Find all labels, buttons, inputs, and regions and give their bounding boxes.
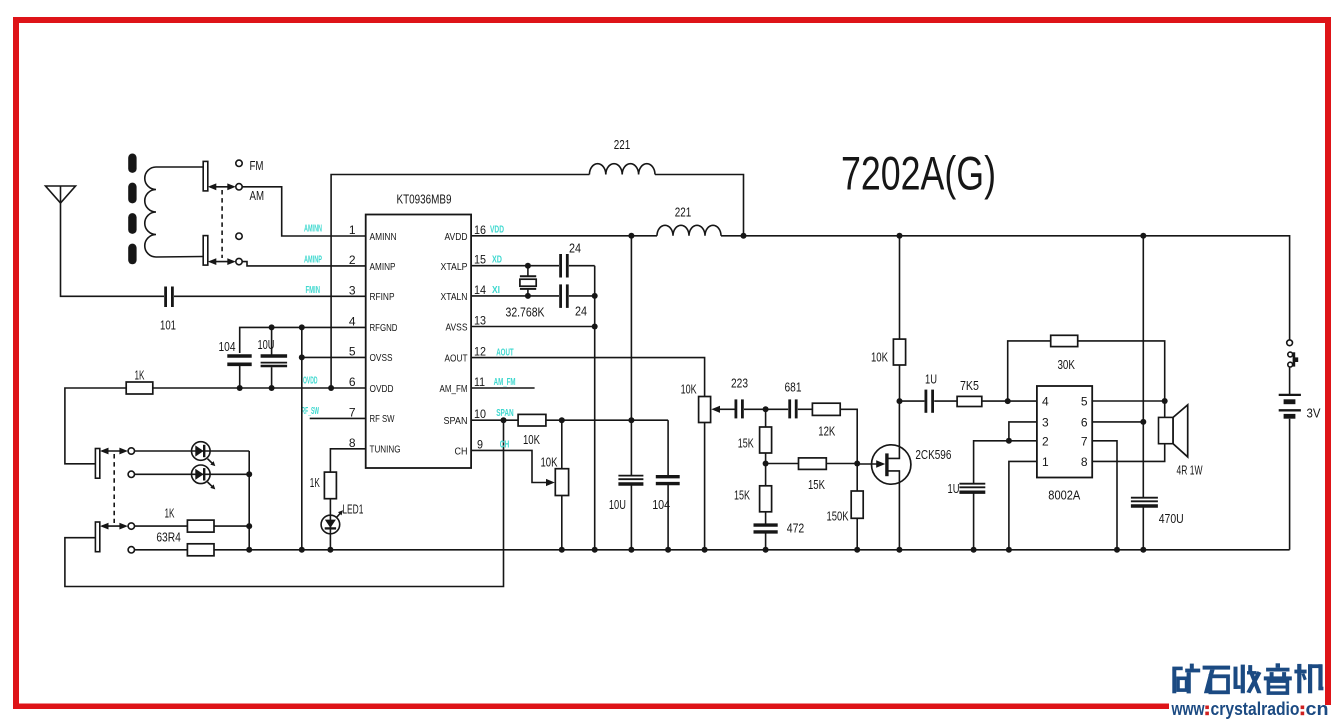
wire TUNING pin8 down xyxy=(330,449,365,472)
inductor 221 (lower, VDD rail) xyxy=(657,205,721,236)
wire 1K to junction xyxy=(214,525,249,527)
wire 15K junction row xyxy=(765,453,767,486)
contact row2 xyxy=(128,471,134,477)
wire AM lower contact to AMINP pin2 xyxy=(242,262,366,266)
junction row column/ground rail xyxy=(246,547,252,553)
wire RFGND pin4 to caps xyxy=(240,327,366,353)
junction 470U/ground rail xyxy=(1140,547,1146,553)
resistor 15K (lower vertical) xyxy=(734,486,772,512)
wire coil top to FM/AM switch plate xyxy=(156,166,203,168)
watermark logo 机 xyxy=(1294,664,1323,693)
svg-text:1: 1 xyxy=(1042,455,1049,469)
svg-text:5: 5 xyxy=(1081,395,1088,409)
potentiometer 10K (volume) xyxy=(681,382,711,423)
wire pin6 to VDD vertical xyxy=(1092,421,1143,423)
wire 15K to 472 xyxy=(765,512,767,524)
inductor 221 (upper) xyxy=(589,137,655,175)
svg-text:221: 221 xyxy=(614,137,631,152)
junction 223/15K xyxy=(763,406,769,412)
junction pin4/30K xyxy=(1005,398,1011,404)
capacitor 24 (upper) xyxy=(561,240,581,277)
AVSS ground vertical wire xyxy=(594,266,596,550)
svg-text:OVDD: OVDD xyxy=(303,376,318,387)
junction SPAN/VDD vertical xyxy=(628,417,634,423)
LED D2 xyxy=(192,465,216,489)
junction ground/104 xyxy=(665,547,671,553)
svg-text:6: 6 xyxy=(349,375,356,389)
svg-text:RF_SW: RF_SW xyxy=(302,406,320,417)
switch S1b wiper double arrow xyxy=(208,258,236,265)
svg-text:32.768K: 32.768K xyxy=(506,304,545,319)
resistor 12K xyxy=(812,403,840,438)
wire row3 to 1K xyxy=(135,525,188,527)
wire pin8 to speaker bottom xyxy=(1092,444,1165,462)
switch S2 plate xyxy=(95,449,99,479)
svg-text:221: 221 xyxy=(675,205,692,220)
wire AM contact to AMINN pin1 xyxy=(242,187,366,236)
wire AOUT pin12 to volume pot xyxy=(471,358,704,397)
capacitor 104 (left) xyxy=(219,339,252,365)
transistor Q1 2CK596 xyxy=(857,401,951,550)
junction ground/volume pot xyxy=(702,547,708,553)
svg-text:11: 11 xyxy=(474,375,485,389)
wire row4 to 63R4 xyxy=(135,549,188,551)
capacitor 104 (VDD bypass) xyxy=(652,420,680,550)
junction VDD/SPAN pull-up xyxy=(628,233,634,239)
junction 15K node xyxy=(763,461,769,467)
wire 681 to 12K xyxy=(798,408,813,410)
svg-text:cn: cn xyxy=(1306,699,1329,719)
wire OVSS pin5 to ground vertical xyxy=(302,356,366,358)
wire CH pot bottom to ground xyxy=(561,496,563,550)
watermark logo 石 xyxy=(1203,666,1231,694)
dashed switch link S2/S3 xyxy=(113,454,115,523)
resistor 1K (row3) xyxy=(165,505,215,532)
svg-text:1K: 1K xyxy=(135,368,145,383)
svg-text:8: 8 xyxy=(1081,455,1088,469)
junction drain node xyxy=(897,398,903,404)
svg-text:223: 223 xyxy=(731,376,748,391)
svg-text:8: 8 xyxy=(349,436,356,450)
svg-text:30K: 30K xyxy=(1057,357,1075,372)
junction pin2/pin3 xyxy=(1006,438,1012,444)
svg-text:4R 1W: 4R 1W xyxy=(1177,463,1203,478)
svg-text:12: 12 xyxy=(474,344,486,358)
ground vertical wire (RFGND/OVSS) xyxy=(301,327,303,549)
junction LED1/ground rail xyxy=(327,547,333,553)
speaker 4R 1W xyxy=(1159,405,1203,478)
capacitor 101 xyxy=(160,287,176,333)
svg-text:FM: FM xyxy=(250,158,264,173)
resistor 150K xyxy=(827,491,864,524)
svg-text:AM: AM xyxy=(250,188,265,203)
wire pin5 to speaker top xyxy=(1092,400,1165,402)
svg-text:CH: CH xyxy=(500,440,510,451)
VDD vertical wire to 470U xyxy=(1142,236,1144,497)
switch S4 (power) xyxy=(1287,340,1299,367)
svg-text:10K: 10K xyxy=(523,432,540,447)
CH pot wiper arrowhead xyxy=(546,479,555,486)
junction AVSS vertical xyxy=(592,324,598,330)
junction XTALP/crystal xyxy=(525,263,531,269)
ground rail xyxy=(214,549,1290,551)
svg-text:1: 1 xyxy=(349,223,356,237)
junction SPAN/CH pot top xyxy=(559,417,565,423)
junction ground/AVSS xyxy=(592,547,598,553)
dashed switch link S1 xyxy=(221,190,223,258)
svg-text:AOUT: AOUT xyxy=(496,347,514,358)
resistor 7K5 xyxy=(957,378,982,407)
wire 150K to ground xyxy=(856,518,858,550)
wire pin3 to pin2 link xyxy=(1009,422,1037,441)
svg-text:2CK596: 2CK596 xyxy=(915,447,951,462)
junction 472/ground rail xyxy=(763,547,769,553)
svg-text:OVDD: OVDD xyxy=(370,384,394,395)
svg-text:10K: 10K xyxy=(681,382,697,397)
capacitor 10U (VDD bypass, polarized) xyxy=(609,476,644,550)
wire antenna to C101 xyxy=(61,203,165,296)
ferrite rod bars xyxy=(128,154,136,265)
U1 pin numbers left 1-8 xyxy=(349,223,356,450)
svg-text:SPAN: SPAN xyxy=(496,408,514,419)
svg-text:7202A(G): 7202A(G) xyxy=(841,147,996,200)
contact row3 xyxy=(128,523,134,529)
svg-text:XD: XD xyxy=(492,254,502,265)
wire SPAN net to VDD pull-up column xyxy=(546,419,668,421)
junction VDD/221 xyxy=(741,233,747,239)
switch S1b plate xyxy=(203,236,208,266)
wire XTALN pin14 xyxy=(471,295,559,297)
contact FM xyxy=(236,160,242,166)
wire VDD rail right section xyxy=(721,236,1290,340)
contact AM xyxy=(236,184,242,190)
watermark logo 音 xyxy=(1264,663,1292,693)
svg-text:681: 681 xyxy=(785,380,802,395)
svg-text:1U: 1U xyxy=(925,371,937,386)
resistor 63R4 xyxy=(156,530,214,556)
switch S1a plate xyxy=(203,161,208,191)
junction ground/CH pot xyxy=(559,547,565,553)
wire CH pin9 to pot wiper xyxy=(471,450,546,482)
svg-text:crystalradio: crystalradio xyxy=(1211,699,1300,719)
svg-text:CH: CH xyxy=(455,446,468,457)
wire AVSS pin13 xyxy=(471,326,595,328)
junction RFGND/10U top xyxy=(269,324,275,330)
svg-text:15K: 15K xyxy=(738,436,754,451)
contact row4 xyxy=(128,547,134,553)
svg-text:15K: 15K xyxy=(734,487,750,502)
resistor 10K (drain load) xyxy=(871,236,906,401)
wire 7K5 to 8002A pin4 xyxy=(982,400,1037,402)
wire row1 corner down xyxy=(248,451,250,550)
svg-text:XTALN: XTALN xyxy=(441,292,468,303)
svg-text:12K: 12K xyxy=(818,423,835,438)
svg-text:1U: 1U xyxy=(948,481,960,496)
svg-text:63R4: 63R4 xyxy=(156,530,181,545)
U1 pin names right xyxy=(440,232,468,458)
svg-text:9: 9 xyxy=(477,437,483,451)
wire C101 to RFINP pin3 xyxy=(174,295,366,297)
wire pin7 to ground xyxy=(1092,441,1117,550)
svg-text:RFGND: RFGND xyxy=(370,323,398,334)
svg-text:24: 24 xyxy=(575,304,587,319)
wire cap24 lower to AVSS vertical xyxy=(569,295,595,297)
svg-text:KT0936MB9: KT0936MB9 xyxy=(397,191,452,206)
svg-text:10U: 10U xyxy=(609,497,626,512)
resistor 30K (feedback) xyxy=(1008,335,1165,401)
svg-text:7: 7 xyxy=(1081,434,1088,448)
contact row1 xyxy=(128,448,134,454)
junction gate node xyxy=(854,461,860,467)
resistor 15K (horizontal) xyxy=(766,458,858,492)
battery 3V xyxy=(1279,395,1321,420)
junction 1U/ground rail xyxy=(971,547,977,553)
junction pin6/VDD vertical xyxy=(1140,419,1146,425)
svg-text:4: 4 xyxy=(349,315,356,329)
wire 12K to gate column xyxy=(840,409,857,491)
junction cap24/AVSS vertical xyxy=(592,293,598,299)
U1 pin numbers right 16-9 xyxy=(474,223,486,452)
svg-text:RFINP: RFINP xyxy=(370,292,395,303)
svg-text:16: 16 xyxy=(474,223,486,237)
svg-text:14: 14 xyxy=(474,283,486,297)
junction OVDD/221 feed xyxy=(328,385,334,391)
capacitor 24 (lower) xyxy=(561,284,587,318)
junction pin7/ground rail xyxy=(1114,547,1120,553)
LED1 xyxy=(321,502,363,534)
wire 1K to LED1 xyxy=(329,499,331,550)
wire S3 common to SPAN bottom link xyxy=(65,420,504,586)
capacitor 470U (polarized) xyxy=(1131,498,1184,550)
svg-text:10U: 10U xyxy=(258,337,275,352)
svg-text:104: 104 xyxy=(219,339,236,354)
svg-text:2: 2 xyxy=(1042,434,1049,448)
contact AM lower xyxy=(236,258,242,264)
svg-text:AM_FM: AM_FM xyxy=(494,377,516,388)
svg-text:470U: 470U xyxy=(1159,511,1184,526)
wire 223 to 681 node xyxy=(744,408,788,410)
svg-text:AMINP: AMINP xyxy=(370,262,396,273)
resistor 15K (upper vertical) xyxy=(738,409,772,453)
contact FM lower (n.c.) xyxy=(236,233,242,239)
junction ground/RFGND vertical xyxy=(299,547,305,553)
junction pin5/30K/speaker xyxy=(1162,398,1168,404)
svg-text:15K: 15K xyxy=(808,477,825,492)
junction OVDD/10U xyxy=(269,385,275,391)
wire volume pot bottom to ground xyxy=(704,423,706,550)
svg-text:AOUT: AOUT xyxy=(445,354,468,365)
capacitor 10U (left, polarized) xyxy=(258,327,288,388)
junction OVDD/104 xyxy=(237,385,243,391)
wire CH pot top to SPAN xyxy=(561,420,563,469)
svg-text:TUNING: TUNING xyxy=(370,445,401,456)
svg-text:1K: 1K xyxy=(310,475,320,490)
U1 pin names left xyxy=(370,232,401,456)
resistor 1K (TUNING/LED) xyxy=(310,472,337,499)
svg-text:104: 104 xyxy=(652,497,670,512)
wire OVDD pin6 row xyxy=(153,387,366,389)
IC U1 KT0936MB9 xyxy=(366,191,471,468)
svg-text:24: 24 xyxy=(569,240,581,255)
svg-text:6: 6 xyxy=(1081,415,1088,429)
svg-text:OVSS: OVSS xyxy=(370,353,393,364)
capacitor 1U (coupling) xyxy=(925,371,937,413)
junction SPAN/band-select link xyxy=(501,417,507,423)
wire VDD rail AVDD pin16 xyxy=(471,235,657,237)
wire 1U to 7K5 xyxy=(934,400,957,402)
svg-text:15: 15 xyxy=(474,253,486,267)
svg-text:SPAN: SPAN xyxy=(444,416,468,427)
junction source/ground rail xyxy=(896,547,902,553)
svg-text:3: 3 xyxy=(1042,415,1049,429)
svg-text:3V: 3V xyxy=(1307,405,1321,420)
svg-text:101: 101 xyxy=(160,318,176,333)
wire switch to battery xyxy=(1289,367,1291,394)
junction OVSS/ground xyxy=(299,354,305,360)
wire row1 to LED D1 xyxy=(135,450,250,452)
watermark url www.crystalradio.cn xyxy=(1171,699,1329,719)
resistor 10K (SPAN) xyxy=(518,414,546,446)
wire XTALP pin15 xyxy=(471,265,559,267)
resistor 1K (OVDD feed) xyxy=(126,368,153,395)
junction VDD/10K drain xyxy=(897,233,903,239)
wire speaker top feed xyxy=(1164,401,1166,417)
svg-text:AMINP: AMINP xyxy=(304,255,322,266)
wire 221 upper left lead to OVDD xyxy=(331,175,589,389)
junction row3 xyxy=(246,523,252,529)
svg-text:VDD: VDD xyxy=(490,224,504,235)
svg-text:3: 3 xyxy=(349,284,356,298)
svg-text:XI: XI xyxy=(492,285,500,296)
svg-text:7K5: 7K5 xyxy=(960,378,979,393)
coil L1 winding xyxy=(145,167,156,257)
RF_SW stub pin7 xyxy=(310,417,366,419)
U2 pin numbers xyxy=(1042,395,1088,469)
svg-text:7: 7 xyxy=(349,406,356,420)
crystal 32.768K xyxy=(506,266,545,320)
wire 472 to ground xyxy=(765,533,767,550)
svg-text:150K: 150K xyxy=(827,509,849,524)
svg-text:13: 13 xyxy=(474,314,486,328)
svg-text:LED1: LED1 xyxy=(342,502,363,517)
LED D1 xyxy=(192,442,216,466)
wire 104 bottom to OVDD row xyxy=(239,363,241,388)
svg-text:www: www xyxy=(1171,699,1206,719)
svg-text:AVDD: AVDD xyxy=(445,232,468,243)
AM_FM stub pin11 xyxy=(471,387,534,389)
watermark logo 收 xyxy=(1234,665,1262,694)
svg-text:10K: 10K xyxy=(871,350,888,365)
potentiometer 10K (CH) xyxy=(541,454,569,495)
junction ground/10U xyxy=(628,547,634,553)
svg-text:AVSS: AVSS xyxy=(446,323,468,334)
svg-text:AMINN: AMINN xyxy=(304,224,322,235)
volume pot wiper arrow from C223 xyxy=(711,406,734,413)
svg-text:AM_FM: AM_FM xyxy=(440,384,468,395)
wire row2 to LED D2 xyxy=(135,473,250,475)
junction VDD/8002A supply xyxy=(1140,233,1146,239)
wire battery negative to ground rail xyxy=(1289,419,1291,550)
svg-text:FMIN: FMIN xyxy=(306,285,321,296)
junction pin1/ground rail xyxy=(1006,547,1012,553)
capacitor 681 xyxy=(785,380,802,419)
wire 221 upper right lead down to VDD rail xyxy=(655,175,744,236)
svg-text:XTALP: XTALP xyxy=(441,262,468,273)
svg-text:AMINN: AMINN xyxy=(370,232,397,243)
watermark logo 矿 xyxy=(1172,664,1200,694)
capacitor 472 xyxy=(754,521,805,536)
svg-text:4: 4 xyxy=(1042,395,1049,409)
switch S1a wiper double arrow xyxy=(208,183,236,190)
capacitor 223 xyxy=(731,376,748,419)
svg-text:472: 472 xyxy=(787,521,805,536)
switch S3 wiper double arrow xyxy=(100,523,128,530)
wire pin1 to ground xyxy=(1009,461,1037,549)
svg-text:10K: 10K xyxy=(541,454,558,469)
antenna xyxy=(46,186,76,203)
wire cap24 upper to AVSS vertical xyxy=(569,265,595,267)
svg-text:5: 5 xyxy=(349,345,356,359)
wire pin2 to 1U bypass xyxy=(974,441,1037,483)
capacitor 1U (bypass, polarized) xyxy=(948,481,986,550)
junction RFGND/ground-vertical xyxy=(299,324,305,330)
IC U2 8002A xyxy=(1037,386,1092,503)
wire SPAN pin10 xyxy=(471,419,518,421)
VDD pull-up vertical wire xyxy=(630,236,632,475)
switch S3 plate xyxy=(95,522,99,552)
svg-text:2: 2 xyxy=(349,253,356,267)
svg-text:8002A: 8002A xyxy=(1048,488,1080,503)
svg-text:10: 10 xyxy=(474,407,486,421)
svg-text:RF SW: RF SW xyxy=(370,414,395,425)
svg-text:1K: 1K xyxy=(165,505,175,520)
switch S2 wiper double arrow xyxy=(100,448,128,455)
junction 150K/ground rail xyxy=(854,547,860,553)
wire 1K to band switch S2 xyxy=(65,388,126,464)
wire drain to 1U xyxy=(900,400,925,402)
wire coil bottom to lower switch plate xyxy=(156,256,203,259)
junction row2 xyxy=(246,471,252,477)
junction XTALN/crystal xyxy=(525,293,531,299)
